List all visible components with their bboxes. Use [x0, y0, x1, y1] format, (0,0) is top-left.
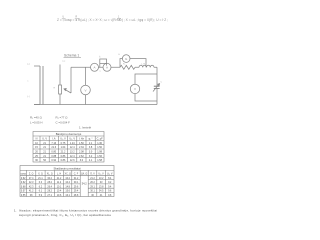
- potentiometer wiper arrow: [64, 89, 71, 94]
- svg-text:0.92: 0.92: [51, 159, 56, 162]
- svg-text:Išvados: eksperimentiškai išty: Išvados: eksperimentiškai ištyrę kintamo…: [19, 208, 157, 212]
- ammeter A1: [91, 63, 99, 71]
- voltmeter V1: [81, 85, 91, 95]
- svg-text:0.86: 0.86: [61, 155, 66, 158]
- svg-text:14.8: 14.8: [65, 186, 70, 188]
- svg-text:27.1: 27.1: [47, 195, 52, 197]
- svg-text:1.24: 1.24: [70, 142, 75, 145]
- svg-text:1.58: 1.58: [97, 159, 102, 162]
- voltmeter V1 branch: [85, 67, 87, 104]
- table 1 data: [35, 142, 102, 162]
- svg-text:13.2: 13.2: [70, 151, 75, 154]
- voltmeter V2: [130, 84, 139, 93]
- svg-text:28.8: 28.8: [74, 195, 79, 197]
- svg-text:28.2: 28.2: [47, 191, 52, 193]
- ammeter A2: [103, 63, 111, 71]
- svg-text:0.68: 0.68: [21, 186, 26, 188]
- capacitor variable arrow: [153, 84, 160, 92]
- svg-text:10.2: 10.2: [65, 178, 70, 180]
- svg-text:21.2: 21.2: [61, 151, 66, 154]
- svg-text:42.3: 42.3: [29, 186, 34, 188]
- svg-text:29.6: 29.6: [74, 186, 79, 188]
- svg-text:30.1: 30.1: [90, 191, 95, 193]
- svg-text:0.86: 0.86: [61, 159, 66, 162]
- svg-text:Bandymų duomenys: Bandymų duomenys: [56, 132, 82, 136]
- svg-text:0.88: 0.88: [51, 155, 56, 158]
- svg-text:30.1: 30.1: [74, 182, 79, 184]
- svg-text:31.2: 31.2: [74, 178, 79, 180]
- svg-text:34.5: 34.5: [99, 191, 104, 193]
- svg-text:0.75: 0.75: [61, 142, 66, 145]
- svg-text:XC, Ω: XC, Ω: [65, 173, 72, 175]
- svg-text:10.4: 10.4: [57, 191, 62, 193]
- svg-text:XL, Ω: XL, Ω: [47, 173, 53, 175]
- top rail wire: [71, 66, 157, 68]
- svg-text:(−): (−): [27, 96, 30, 98]
- svg-text:27.4: 27.4: [29, 178, 34, 180]
- svg-text:10.6: 10.6: [57, 195, 62, 197]
- svg-text:1.98: 1.98: [97, 151, 102, 154]
- battery B1 (source element, left): [34, 66, 43, 105]
- svg-text:13.8: 13.8: [99, 186, 104, 188]
- svg-text:A: A: [106, 66, 108, 70]
- svg-text:(+): (+): [27, 64, 30, 66]
- svg-text:26.2: 26.2: [90, 182, 95, 184]
- inductor L1 coil: [139, 65, 154, 67]
- svg-text:A: A: [93, 66, 95, 70]
- svg-text:2.08: 2.08: [79, 151, 84, 154]
- shunt box above A2: [100, 59, 107, 64]
- svg-text:1.50: 1.50: [79, 142, 84, 145]
- svg-text:C, F: C, F: [74, 173, 79, 175]
- svg-text:ε: ε: [28, 81, 29, 83]
- meter letters: [84, 57, 136, 93]
- svg-text:21.6: 21.6: [51, 146, 56, 149]
- svg-text:U₂, V: U₂, V: [69, 138, 75, 141]
- svg-text:22.3: 22.3: [29, 182, 34, 184]
- svg-text:12.4: 12.4: [70, 146, 75, 149]
- fraction bars: [62, 17, 121, 19]
- potentiometer R3: [59, 85, 62, 94]
- svg-text:V: V: [134, 87, 136, 91]
- svg-text:10.1: 10.1: [57, 186, 62, 188]
- table 2 data: [21, 178, 112, 197]
- svg-text:L, R₂: L, R₂: [141, 63, 146, 65]
- table 1 grid: [33, 132, 104, 163]
- svg-text:1.30: 1.30: [97, 142, 102, 145]
- svg-text:Skaičiavimų rezultatai: Skaičiavimų rezultatai: [53, 167, 80, 171]
- right edge wire lower: [156, 88, 158, 104]
- svg-text:V: V: [84, 88, 86, 92]
- svg-text:15.6: 15.6: [65, 191, 70, 193]
- svg-text:41.2: 41.2: [29, 191, 34, 193]
- capacitor C1 plates: [154, 86, 160, 88]
- svg-text:21.2: 21.2: [57, 178, 62, 180]
- svg-text:1.04: 1.04: [61, 146, 66, 149]
- svg-text:0.62: 0.62: [21, 182, 26, 184]
- svg-text:0.55: 0.55: [21, 195, 26, 197]
- svg-text:R₁ =40 Ω: R₁ =40 Ω: [30, 115, 43, 119]
- table 2 grid: [20, 166, 114, 197]
- svg-text:C, μF: C, μF: [97, 138, 104, 141]
- svg-text:2.62: 2.62: [79, 155, 84, 158]
- fraction numerators: [63, 16, 121, 18]
- right edge wire upper: [156, 67, 158, 86]
- svg-text:R₁: R₁: [123, 63, 126, 65]
- svg-text:Ū, V: Ū, V: [90, 172, 95, 175]
- svg-text:10.4: 10.4: [65, 182, 70, 184]
- wire wiper vertical: [70, 67, 72, 93]
- wire down to potentiometer: [59, 65, 61, 86]
- svg-text:ΔX, Ω: ΔX, Ω: [81, 172, 87, 175]
- fraction denominators: [63, 20, 121, 22]
- svg-text:f, Hz: f, Hz: [79, 138, 85, 141]
- bottom rail wire: [34, 104, 157, 106]
- table 1 column headers: [36, 138, 103, 141]
- svg-text:12.6: 12.6: [70, 159, 75, 162]
- svg-text:30.2: 30.2: [47, 178, 52, 180]
- svg-text:26.4: 26.4: [47, 186, 52, 188]
- component labels: [27, 54, 163, 98]
- svg-text:ωC: ωC: [117, 20, 121, 22]
- svg-text:U₂, V: U₂, V: [107, 173, 113, 175]
- given values line 1: [30, 115, 70, 124]
- svg-text:I, A: I, A: [52, 138, 56, 141]
- svg-text:Schema 1: Schema 1: [64, 54, 79, 58]
- voltmeter V2 loop wires: [135, 74, 157, 101]
- galvanometer branch wires: [120, 59, 146, 68]
- resistor R1 zigzag: [120, 65, 135, 69]
- svg-text:0.57: 0.57: [21, 191, 26, 193]
- svg-text:21.1: 21.1: [38, 178, 43, 180]
- svg-text:cosφ: cosφ: [21, 173, 27, 175]
- svg-text:U, V: U, V: [42, 138, 47, 141]
- svg-text:R₂ =77 Ω: R₂ =77 Ω: [56, 115, 69, 119]
- svg-text:Z, Ω: Z, Ω: [29, 173, 34, 175]
- svg-text:X, Ω: X, Ω: [38, 173, 43, 175]
- galvanometer G1: [122, 55, 130, 63]
- svg-text:(+): (+): [63, 61, 66, 63]
- svg-text:34.2: 34.2: [82, 182, 88, 186]
- table 2 column headers: [21, 172, 113, 175]
- svg-text:φ, °: φ, °: [89, 138, 93, 141]
- svg-text:29.1: 29.1: [90, 186, 95, 188]
- svg-text:L, H: L, H: [57, 173, 62, 175]
- svg-text:29.4: 29.4: [74, 191, 79, 193]
- svg-text:12.4: 12.4: [70, 155, 75, 158]
- svg-text:21.2: 21.2: [90, 178, 95, 180]
- svg-text:L =0.05 H: L =0.05 H: [30, 120, 43, 124]
- svg-text:C =0.004 F: C =0.004 F: [56, 120, 71, 124]
- svg-text:2.34: 2.34: [79, 146, 84, 149]
- svg-text:13.2: 13.2: [99, 178, 104, 180]
- svg-text:G: G: [118, 54, 120, 56]
- svg-text:1.56: 1.56: [97, 155, 102, 158]
- wire pot bottom to bottom rail: [59, 94, 61, 105]
- svg-text:U₁, V: U₁, V: [60, 138, 66, 141]
- svg-text:1. lentelė: 1. lentelė: [79, 125, 92, 129]
- svg-text:N: N: [36, 138, 38, 141]
- svg-text:28.2: 28.2: [47, 182, 52, 184]
- svg-text:0.80: 0.80: [51, 151, 56, 154]
- svg-text:1.: 1.: [14, 208, 17, 212]
- svg-text:7.16: 7.16: [51, 142, 56, 145]
- svg-text:sujungti prietaisai A, Cmg, C₁: sujungti prietaisai A, Cmg, C₁, E₁, U₁ I…: [19, 213, 111, 217]
- svg-text:1.50: 1.50: [97, 146, 102, 149]
- svg-text:16.1: 16.1: [65, 195, 70, 197]
- svg-text:Z = ; cosφ = = R(ωL) ; X: Z = ; cosφ = = R(ωL) ; X = X−X ; ω = √(R…: [57, 18, 168, 22]
- svg-text:U₁, V: U₁, V: [98, 173, 104, 175]
- svg-text:11.2: 11.2: [57, 182, 62, 184]
- svg-text:0.62: 0.62: [21, 178, 26, 180]
